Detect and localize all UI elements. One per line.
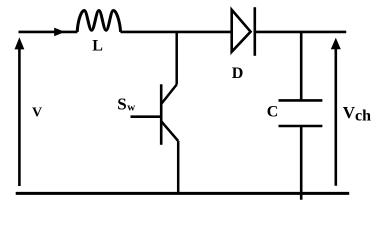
svg-text:ch: ch bbox=[355, 108, 371, 125]
svg-text:S: S bbox=[117, 95, 126, 114]
svg-text:C: C bbox=[267, 104, 279, 121]
svg-text:V: V bbox=[32, 106, 42, 121]
svg-text:L: L bbox=[92, 38, 103, 55]
svg-text:w: w bbox=[127, 101, 135, 113]
svg-text:D: D bbox=[232, 65, 244, 82]
svg-text:V: V bbox=[343, 103, 356, 122]
